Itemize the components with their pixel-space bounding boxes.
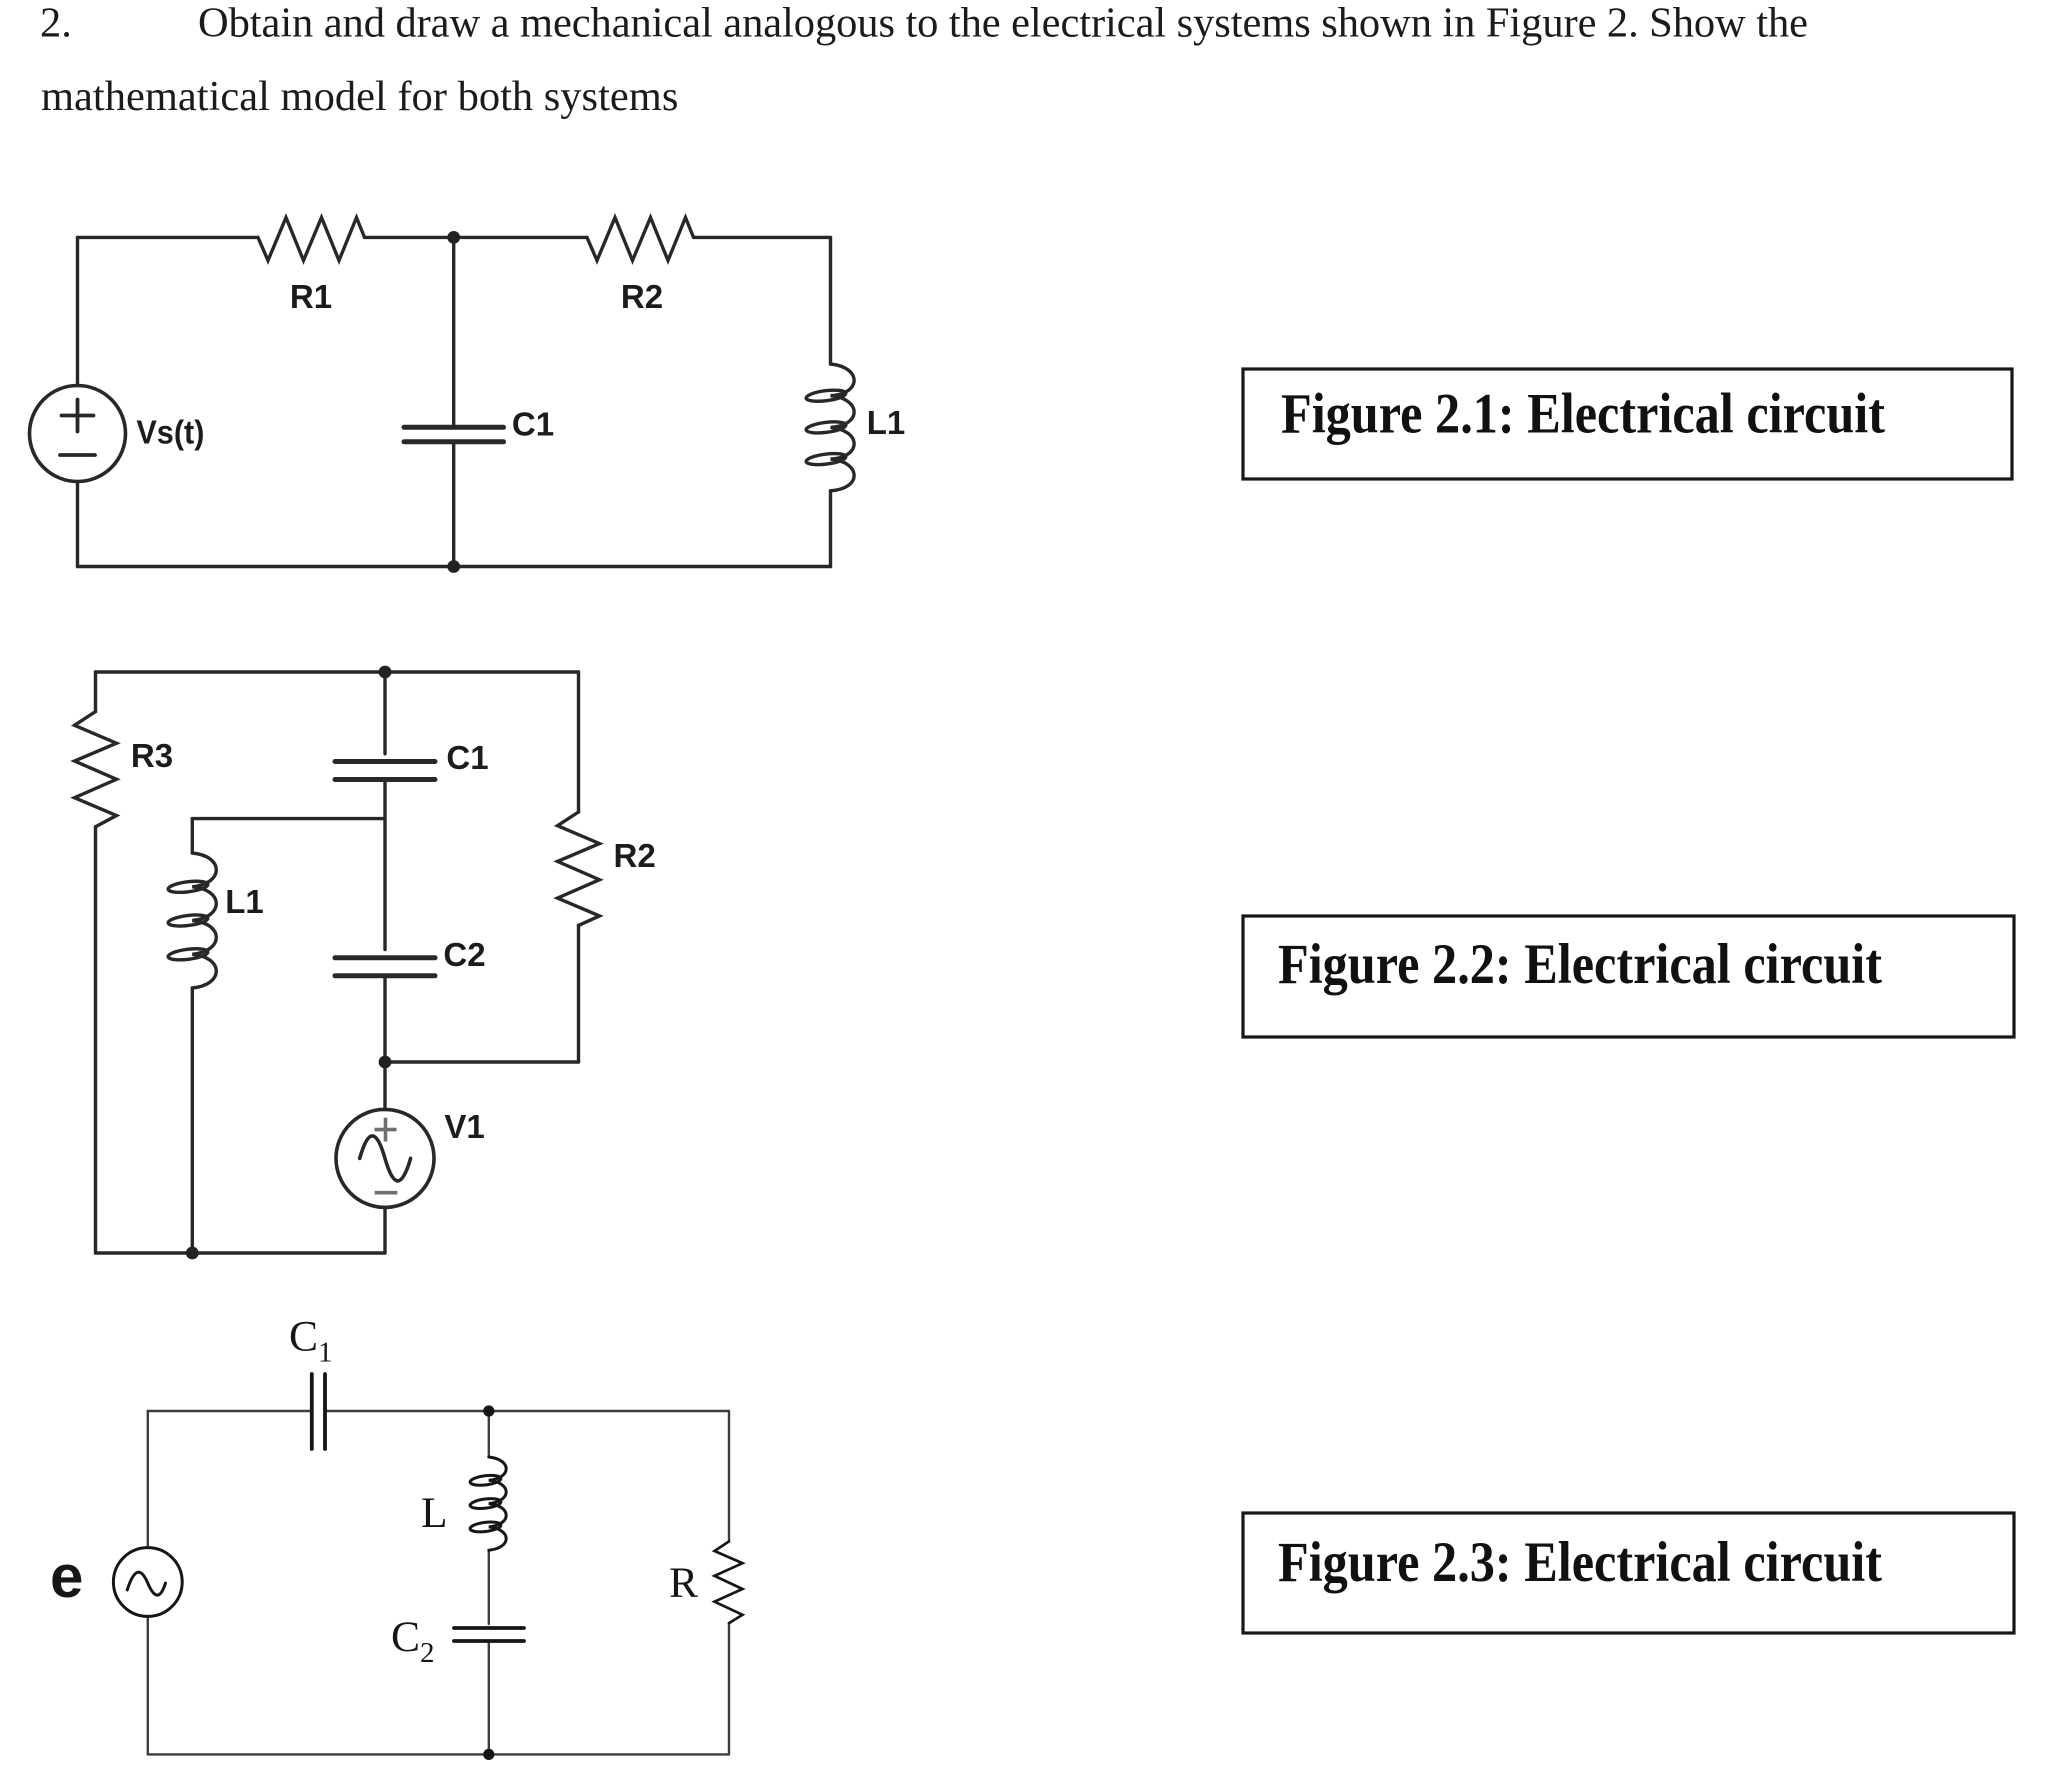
caption box Figure 2.3	[1243, 1513, 2014, 1633]
svg-text:C2: C2	[391, 1613, 435, 1669]
wire left upper	[94, 672, 97, 712]
node dot bottom (fig 2.2)	[186, 1247, 199, 1260]
svg-text:Figure 2.1: Electrical circuit: Figure 2.1: Electrical circuit	[1281, 383, 1885, 446]
caption box Figure 2.2	[1243, 916, 2014, 1037]
svg-text:e: e	[50, 1543, 83, 1610]
capacitor C2 plates (fig 2.2)	[335, 958, 435, 976]
resistor R2	[587, 218, 694, 261]
wire top-left (source to R1)	[78, 236, 259, 239]
wire L to C2 (fig 2.3)	[488, 1550, 490, 1624]
wire bottom	[78, 565, 831, 568]
wire right lower (fig 2.3)	[728, 1623, 730, 1754]
svg-text:R2: R2	[621, 278, 663, 315]
svg-text:mathematical model for both sy: mathematical model for both systems	[41, 73, 678, 120]
node dot top (fig 2.3)	[483, 1405, 494, 1416]
inner branch wire above L1	[191, 819, 194, 853]
svg-text:Vs(t): Vs(t)	[136, 414, 204, 451]
capacitor C1 plates (fig 2.3)	[312, 1374, 325, 1449]
node dot top center (fig 2.2)	[379, 666, 392, 679]
inner branch wire below L1	[191, 988, 194, 1253]
svg-text:Figure 2.3: Electrical circuit: Figure 2.3: Electrical circuit	[1278, 1531, 1882, 1594]
wire right upper (fig 2.3)	[728, 1411, 730, 1542]
inductor L bumps (fig 2.3)	[489, 1457, 506, 1550]
V1 sine wave	[360, 1136, 411, 1181]
source e sine wave	[127, 1572, 165, 1595]
svg-text:Figure 2.2: Electrical circuit: Figure 2.2: Electrical circuit	[1278, 933, 1882, 996]
svg-text:C1: C1	[446, 739, 488, 776]
svg-text:Obtain and draw a mechanical a: Obtain and draw a mechanical analogous t…	[198, 0, 1808, 47]
svg-text:2.: 2.	[40, 0, 72, 47]
V1 plus sign	[375, 1118, 397, 1142]
svg-text:C1: C1	[512, 406, 554, 443]
V1 minus sign	[375, 1191, 398, 1195]
capacitor C1 plates (fig 2.2)	[335, 762, 435, 780]
wire left lower	[94, 827, 97, 1253]
wire left lower (fig 2.3)	[147, 1616, 149, 1754]
capacitor C2 plates (fig 2.3)	[454, 1628, 524, 1641]
wire right side lower	[829, 491, 832, 567]
resistor R1	[258, 218, 365, 261]
wire node B to right branch	[385, 1060, 579, 1063]
wire R1 to node A	[365, 236, 588, 239]
inductor L1 bumps	[831, 364, 855, 491]
Vs(t) plus sign	[62, 400, 94, 432]
center wire C2 to node B	[383, 978, 386, 1062]
caption box Figure 2.1	[1243, 369, 2012, 479]
svg-text:R3: R3	[131, 737, 173, 774]
wire bottom (fig 2.3)	[148, 1753, 729, 1755]
wire V1 to bottom	[383, 1208, 386, 1254]
svg-text:L1: L1	[867, 404, 906, 441]
voltage source Vs(t) circle	[30, 386, 126, 482]
svg-text:V1: V1	[444, 1108, 484, 1145]
wire C2 to bottom (fig 2.3)	[488, 1643, 490, 1754]
voltage source V1 circle	[336, 1109, 434, 1207]
inductor L1 loop ellipses	[806, 388, 847, 403]
wire top left of C1 (fig 2.3)	[148, 1410, 310, 1412]
resistor R (fig 2.3)	[715, 1541, 743, 1623]
inductor L loop ellipses (fig 2.3)	[470, 1474, 502, 1487]
wire left upper (fig 2.3)	[147, 1411, 149, 1548]
wire left above source	[76, 237, 79, 385]
node dot bottom (fig 2.1)	[447, 560, 460, 573]
inductor L1 loop ellipses (fig 2.2)	[168, 879, 209, 894]
wire center node to L (fig 2.3)	[488, 1411, 490, 1457]
svg-text:L1: L1	[225, 883, 264, 920]
wire right lower (fig 2.2)	[577, 925, 580, 1062]
node dot top (fig 2.1)	[447, 231, 460, 244]
svg-text:L: L	[421, 1489, 448, 1537]
svg-text:C2: C2	[443, 936, 485, 973]
svg-text:R2: R2	[614, 837, 656, 874]
inductor L1 bumps (fig 2.2)	[192, 853, 216, 988]
node dot bottom (fig 2.3)	[483, 1749, 494, 1760]
resistor R3	[75, 712, 117, 827]
wire R2 to top-right corner	[694, 236, 831, 239]
wire top right of C1 (fig 2.3)	[327, 1410, 729, 1412]
wire right upper (fig 2.2)	[577, 672, 580, 812]
wire bottom (fig 2.2)	[96, 1251, 386, 1254]
center wire C1 to C2	[383, 782, 386, 950]
node dot B below C2 (fig 2.2)	[379, 1056, 392, 1069]
wire node B to V1	[383, 1062, 386, 1110]
wire top (fig 2.2)	[96, 670, 579, 673]
resistor R2 (fig 2.2)	[558, 812, 600, 925]
svg-text:C1: C1	[289, 1313, 333, 1369]
source e circle	[113, 1548, 182, 1617]
capacitor C1 wire upper	[452, 237, 455, 424]
wire right side upper	[829, 237, 832, 364]
wire left below source	[76, 482, 79, 567]
capacitor C1 wire lower	[452, 444, 455, 566]
inner branch horizontal wire	[192, 817, 385, 820]
capacitor C1 plates	[404, 427, 504, 442]
svg-text:R1: R1	[290, 278, 332, 315]
center wire top to C1	[383, 672, 386, 754]
Vs(t) minus sign	[60, 453, 95, 457]
svg-text:R: R	[669, 1559, 698, 1607]
